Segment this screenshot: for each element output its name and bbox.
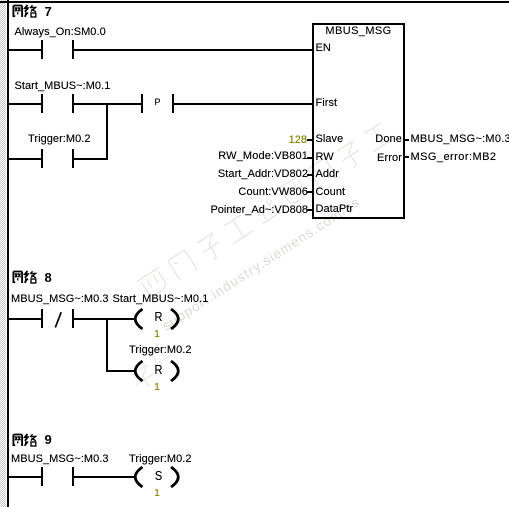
stub Error: [404, 156, 409, 158]
network 9 title: [12, 433, 54, 447]
pin label RW: [316, 152, 334, 163]
contact Start_MBUS left bar: [41, 94, 43, 113]
left power rail: [7, 0, 9, 507]
pin label Error: [377, 153, 402, 164]
stub Done: [404, 139, 409, 141]
pin label Done: [375, 134, 402, 145]
P contact letter: [147, 98, 168, 107]
wire contact3 to branch: [74, 158, 108, 160]
wire contact2 to P contact: [74, 103, 141, 105]
contact Trigger label: [28, 134, 91, 145]
contact MBUS_MSG label (net9): [11, 454, 109, 465]
value 128: [289, 135, 307, 146]
coil Start_MBUS label (net8): [113, 294, 209, 305]
value Count:VW806: [238, 187, 308, 198]
P contact right bar: [172, 94, 174, 113]
value Start_Addr:VD802: [218, 169, 308, 180]
top border line: [0, 1, 509, 3]
wire rail to contact 1: [9, 49, 41, 51]
coil R1 letter: [149, 311, 167, 324]
output Error operand: [411, 152, 497, 163]
branch vertical wire: [106, 103, 108, 160]
contact Always_On right bar: [72, 40, 74, 59]
coil S parens: [128, 464, 184, 490]
coil Trigger label (net8): [129, 345, 192, 356]
coil S count 1: [147, 489, 168, 499]
network 9 number: [45, 433, 52, 446]
NC contact slash: [51, 311, 63, 329]
pin label Addr: [316, 169, 339, 180]
stub RW: [307, 157, 312, 159]
stub DataPtr: [307, 209, 312, 211]
coil R1 count 1: [147, 330, 168, 340]
wire contact1 to block EN: [74, 49, 312, 51]
branch vertical wire (net8): [106, 318, 108, 372]
coil R2 letter: [149, 364, 167, 377]
wire NC contact to R coil 1: [74, 318, 135, 320]
contact net9 left bar: [41, 467, 43, 486]
network 7 number: [45, 5, 52, 18]
NC contact right bar: [72, 309, 74, 328]
contact Trigger right bar: [72, 149, 74, 168]
wire P contact to block First: [174, 103, 312, 105]
output Done operand: [411, 134, 509, 145]
coil R2 parens: [128, 358, 184, 384]
P contact left bar: [141, 94, 143, 113]
coil R2 count 1: [147, 383, 168, 393]
coil Trigger label (net9): [129, 454, 192, 465]
wire rail to contact 2: [9, 103, 41, 105]
contact Start_MBUS label: [15, 81, 111, 92]
left margin dither strip: [0, 0, 6, 507]
pin label First: [316, 98, 338, 109]
block title MBUS_MSG: [312, 26, 405, 37]
pin label DataPtr: [316, 204, 354, 215]
function block MBUS_MSG box: [312, 23, 405, 219]
stub Slave: [307, 139, 312, 141]
pin label Count: [316, 187, 346, 198]
wire rail to NC contact: [9, 318, 41, 320]
stub Addr: [307, 174, 312, 176]
pin label Slave: [316, 134, 344, 145]
contact Start_MBUS right bar: [72, 94, 74, 113]
coil R1 parens: [128, 306, 184, 332]
value RW_Mode:VB801: [218, 151, 308, 162]
wire rail to contact 3: [9, 158, 41, 160]
value Pointer_Ad~:VD808: [210, 205, 308, 216]
wire rail to contact (net9): [9, 476, 41, 478]
network 8 number: [45, 271, 52, 284]
contact MBUS_MSG label (net8): [11, 294, 109, 305]
stub Count: [307, 191, 312, 193]
wire contact to S coil: [74, 476, 135, 478]
contact Trigger left bar: [41, 149, 43, 168]
network 8 title: [12, 270, 54, 284]
network 7 title: [12, 4, 54, 18]
contact Always_On left bar: [41, 40, 43, 59]
coil S letter: [149, 470, 167, 483]
wire branch to R coil 2: [106, 370, 136, 372]
contact Always_On:SM0.0 label: [15, 27, 106, 38]
NC contact left bar: [41, 309, 43, 328]
contact net9 right bar: [72, 467, 74, 486]
pin label EN: [316, 43, 331, 54]
